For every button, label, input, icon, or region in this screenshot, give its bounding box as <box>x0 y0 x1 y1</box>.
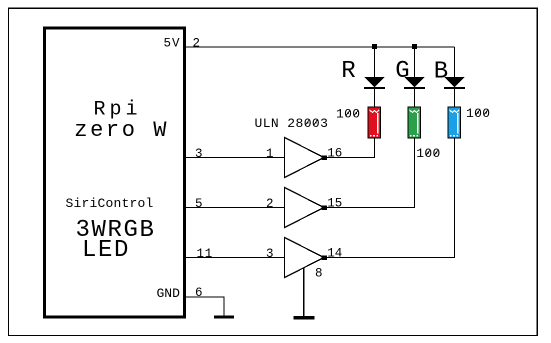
slashed zeros detail <box>305 109 488 155</box>
svg-text:8: 8 <box>315 266 323 280</box>
wire pin11 to buffer3 input <box>186 257 285 259</box>
svg-text:100: 100 <box>466 106 490 121</box>
svg-text:15: 15 <box>327 197 342 211</box>
svg-text:5: 5 <box>195 197 203 211</box>
op-amp buffer A3 (ULN ch 3) <box>285 238 325 278</box>
svg-text:100: 100 <box>336 107 360 122</box>
svg-text:2: 2 <box>266 197 274 211</box>
wire R column drop <box>374 47 376 78</box>
svg-text:100: 100 <box>416 146 440 161</box>
svg-text:B: B <box>434 58 448 85</box>
svg-text:GND: GND <box>157 286 181 301</box>
wire pin8 to ground <box>303 268 305 316</box>
node junction G column on 5V rail <box>412 44 417 49</box>
wire 5V rail <box>186 46 455 48</box>
label 3WRGB LED <box>76 217 156 264</box>
node junction buffer3 output <box>322 256 328 261</box>
IC U1 box Rpi zero W <box>45 28 185 317</box>
op-amp buffer A2 (ULN ch 2) <box>285 188 325 228</box>
resistor R1 100 (red) <box>368 107 381 138</box>
svg-text:G: G <box>395 58 409 85</box>
wire pin3 to buffer1 input <box>186 157 285 159</box>
ground symbol (pin 6) <box>214 316 234 319</box>
svg-text:5V: 5V <box>164 36 181 50</box>
ground symbol (pin 8) <box>293 316 314 320</box>
svg-text:ULN 28003: ULN 28003 <box>255 116 329 131</box>
svg-text:11: 11 <box>197 247 214 261</box>
wire buffer1 output to R resistor <box>324 138 375 158</box>
svg-text:14: 14 <box>327 247 342 261</box>
svg-text:2: 2 <box>193 36 201 50</box>
op-amp buffer A1 (ULN ch 1) <box>285 138 325 178</box>
wire B column drop <box>454 47 456 78</box>
svg-text:LED: LED <box>82 237 130 264</box>
node junction buffer2 output <box>322 206 328 211</box>
svg-text:6: 6 <box>195 286 203 300</box>
node junction R column on 5V rail <box>372 44 377 49</box>
wire GND pin6 <box>186 297 224 316</box>
wire pin5 to buffer2 input <box>186 207 285 209</box>
svg-text:R: R <box>341 58 355 85</box>
node junction buffer1 output <box>322 156 328 161</box>
svg-text:16: 16 <box>327 147 342 161</box>
label Rpi zero W <box>74 99 169 143</box>
resistor R2 100 (green) <box>408 107 421 138</box>
wire buffer3 output to B resistor <box>324 138 455 258</box>
LED D3 B <box>444 77 465 107</box>
svg-text:1: 1 <box>266 147 274 161</box>
resistor R3 100 (blue) <box>448 107 461 138</box>
wire G column drop <box>414 47 416 78</box>
svg-text:zero W: zero W <box>74 118 169 143</box>
wire buffer2 output to G resistor <box>324 138 415 208</box>
LED D1 R <box>364 77 385 107</box>
svg-text:SiriControl: SiriControl <box>66 196 154 211</box>
svg-text:3: 3 <box>195 147 203 161</box>
LED D2 G <box>404 77 425 107</box>
svg-text:3: 3 <box>266 247 274 261</box>
